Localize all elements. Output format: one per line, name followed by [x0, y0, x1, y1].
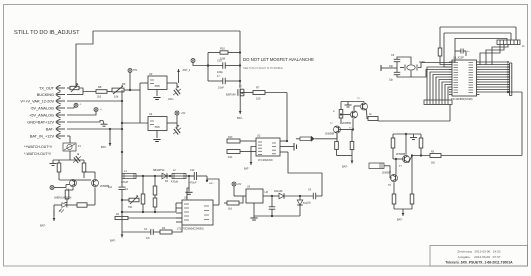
svg-text:R9: R9 — [122, 82, 126, 86]
title block text line 1 — [457, 249, 500, 253]
title block text line 3 — [445, 261, 513, 265]
svg-text:+5V_ANALOG: +5V_ANALOG — [29, 113, 54, 117]
wire dcdc mid — [121, 211, 176, 213]
svg-text:15p: 15p — [389, 65, 394, 68]
svg-text:2N5087: 2N5087 — [382, 171, 392, 175]
ground rail2 — [410, 134, 417, 140]
wire t7-right — [441, 155, 522, 157]
label LM393 — [54, 196, 71, 200]
net arrow TX mid — [296, 136, 315, 142]
inductor L1 — [121, 170, 136, 184]
resistor R5b — [153, 198, 157, 212]
resistor R30 — [438, 48, 449, 65]
wire conn j1 top1 — [515, 27, 517, 40]
wire diff rail — [53, 157, 84, 160]
wire lm top — [234, 195, 246, 197]
net label -5V_ANALOG — [30, 105, 65, 111]
wire xtal mid — [396, 62, 398, 73]
svg-text:BAT_IN_+12V: BAT_IN_+12V — [30, 134, 55, 138]
svg-text:2N5550: 2N5550 — [342, 121, 352, 125]
svg-text:C12: C12 — [190, 169, 195, 172]
label 2N5088 a — [325, 132, 335, 136]
resistor R20 — [333, 102, 343, 125]
gnd left xtal — [381, 65, 397, 71]
wire bundle left — [427, 67, 449, 100]
svg-text:15p: 15p — [389, 79, 394, 82]
title block text line 2 — [458, 255, 501, 259]
wire U4 right — [167, 122, 177, 124]
wire t4 c — [84, 172, 95, 179]
svg-text:100u: 100u — [168, 98, 174, 101]
svg-text:R10: R10 — [220, 47, 225, 51]
wire GND row — [67, 121, 103, 123]
capacitor C4 — [307, 189, 322, 205]
transistor T4 — [92, 180, 110, 189]
svg-text:+5V: +5V — [237, 183, 242, 186]
wire loops j1 — [480, 45, 508, 66]
svg-text:SEE THIS IS WHAT IS POSSIBLE: SEE THIS IS WHAT IS POSSIBLE — [243, 66, 283, 70]
wire bus x122 — [121, 90, 123, 187]
svg-text:47n: 47n — [146, 237, 151, 240]
wire t6 base — [390, 174, 392, 178]
svg-text:10n: 10n — [307, 202, 312, 205]
resistor R10 — [208, 47, 240, 61]
svg-text:GND=BAT+12V: GND=BAT+12V — [27, 120, 54, 124]
transistor T2 — [330, 123, 341, 133]
diode D5 — [274, 190, 284, 199]
label BAT- mid — [101, 128, 111, 149]
svg-text:+5V: +5V — [181, 112, 186, 115]
junction tx — [129, 89, 131, 91]
wire conn j1 top2 — [510, 33, 512, 40]
wire t4 e — [94, 187, 96, 205]
capacitor C3 — [144, 228, 153, 240]
wire icsp top3 — [455, 39, 507, 52]
wire t6 c — [393, 182, 395, 194]
resistor R2 — [141, 176, 145, 212]
wire t1 c — [354, 106, 360, 110]
pad +5v lm — [232, 182, 242, 196]
resistor R25 — [391, 134, 395, 155]
svg-text:-5V_ANALOG: -5V_ANALOG — [30, 106, 54, 110]
pad +5V — [175, 111, 186, 115]
capacitor C13 — [168, 85, 183, 101]
ground diff rail — [50, 160, 57, 166]
transistor T3 — [66, 180, 77, 192]
net label BAT- — [46, 126, 65, 132]
svg-text:*-WATCH-OUT*!!: *-WATCH-OUT*!! — [24, 152, 51, 156]
svg-text:TR1: TR1 — [128, 206, 133, 209]
wire U4 gnd stem — [156, 131, 158, 139]
svg-text:R14: R14 — [228, 156, 233, 159]
ic U6 LM — [246, 186, 268, 204]
wire note pointer — [76, 31, 240, 88]
svg-text:BAT-: BAT- — [110, 239, 116, 243]
wire U3 right — [167, 82, 177, 84]
wire t5 c — [363, 101, 365, 104]
ground rail drop — [185, 176, 192, 194]
wire tx step — [79, 88, 96, 92]
svg-text:BAT-: BAT- — [342, 165, 348, 169]
wire icsp v1 — [439, 27, 441, 48]
label -WATCH-OUT — [24, 152, 51, 156]
svg-text:2u2: 2u2 — [108, 186, 113, 189]
resistor R28 — [392, 194, 396, 204]
svg-text:U3: U3 — [149, 72, 153, 76]
svg-text:470uF: 470uF — [190, 182, 197, 185]
connector J3 — [424, 100, 452, 105]
connector J1 — [497, 40, 525, 48]
svg-text:100: 100 — [256, 97, 261, 101]
note DO NOT LET MOSFET AVALANCHE — [243, 57, 314, 62]
wire u2 out3 — [280, 151, 288, 153]
inductor L2 — [171, 169, 186, 184]
transistor T5 — [357, 98, 368, 110]
wire r7 right — [265, 92, 287, 94]
wire q1-r7 — [244, 92, 253, 94]
svg-text:1N4148: 1N4148 — [274, 190, 283, 193]
capacitor C15 — [410, 154, 414, 204]
transistor T1 — [342, 111, 358, 125]
svg-text:2k2: 2k2 — [97, 95, 102, 99]
svg-text:3k3: 3k3 — [228, 208, 233, 211]
crystal X1 — [405, 61, 426, 71]
diode D4 — [153, 169, 169, 183]
pic right pin stubs — [477, 62, 480, 95]
capacitor C5 — [269, 195, 276, 216]
resistor R24 — [368, 113, 378, 121]
wire +5V row — [67, 112, 96, 116]
net label BAT_IN_+12V — [30, 133, 65, 139]
svg-text:BAT-: BAT- — [237, 116, 243, 120]
wire icsp top1 — [440, 26, 516, 28]
capacitor C8 — [389, 72, 400, 81]
wire bus x122 lower — [121, 190, 123, 233]
resistor R32 — [82, 160, 86, 178]
wire u2-lm area — [288, 152, 322, 196]
wire dcdc toprail — [122, 175, 194, 177]
wire led left — [54, 204, 62, 206]
wire BUCKING row — [67, 92, 83, 95]
wire led bottom — [40, 205, 55, 228]
resistor R8 — [96, 85, 107, 99]
wire u2 out2 — [280, 146, 294, 148]
ground U4 — [153, 140, 160, 142]
svg-text:V=+V_VAR_12-20V: V=+V_VAR_12-20V — [21, 99, 55, 103]
capacitor C9 — [389, 54, 400, 68]
wire d5-z — [284, 195, 313, 197]
wire u5 right — [207, 179, 219, 205]
svg-text:10k: 10k — [114, 95, 119, 99]
wire x240 top — [239, 31, 241, 88]
wire l1-d4 — [136, 175, 162, 177]
wire U4 left — [122, 122, 148, 124]
capacitor C12 — [190, 169, 197, 185]
ic U1 PIC16F883 — [451, 55, 477, 101]
title block box — [430, 246, 528, 267]
wire arrow-base — [315, 133, 338, 139]
svg-text:2k2: 2k2 — [431, 162, 436, 165]
resistor R13 — [227, 136, 256, 143]
net label GND=BAT+12V — [27, 119, 65, 125]
svg-text:BAT-: BAT- — [209, 182, 214, 185]
wire pad5v stem — [176, 115, 178, 128]
svg-text:R7: R7 — [256, 86, 260, 90]
svg-text:*+WATCH-OUT*!!: *+WATCH-OUT*!! — [24, 145, 52, 149]
wire t5 e — [367, 110, 369, 119]
svg-text:LT1173CN8(MC34063): LT1173CN8(MC34063) — [177, 227, 204, 231]
wire xtal top — [397, 57, 411, 64]
wire icsp v2 — [444, 33, 449, 67]
resistor R22 — [350, 130, 354, 156]
wire rail1 — [341, 101, 364, 103]
svg-text:2N5088: 2N5088 — [396, 152, 406, 156]
svg-text:BAT-: BAT- — [397, 218, 403, 222]
svg-text:7805: 7805 — [154, 85, 160, 88]
wire q1 source — [237, 97, 243, 121]
wire u5 left pins — [176, 203, 182, 222]
svg-text:Ausgabe: 2013-03-06 07:37: Ausgabe: 2013-03-06 07:37 — [458, 255, 501, 259]
svg-text:2N5088: 2N5088 — [325, 132, 335, 136]
label +WATCH-OUT — [24, 145, 52, 149]
wire t3-t4 — [59, 178, 91, 180]
svg-text:STILL TO DO IB_ADJUST: STILL TO DO IB_ADJUST — [14, 30, 80, 36]
pad input — [50, 185, 69, 190]
regulator U3 — [148, 72, 167, 90]
wire t1 base — [340, 113, 350, 115]
resistor R33 — [67, 203, 87, 207]
wire bat bottom — [110, 232, 123, 243]
regulator U4 — [148, 112, 167, 131]
wire U3 left — [140, 82, 148, 84]
wire icsp top2 — [444, 32, 511, 34]
transistor T7 — [396, 152, 410, 168]
wire t6 e — [395, 158, 397, 175]
wire osc2 — [411, 70, 452, 78]
ground U3 — [153, 98, 160, 100]
svg-text:10nF: 10nF — [218, 86, 224, 90]
resistor R14 — [227, 150, 256, 160]
gnd arrow cluster2 — [397, 209, 404, 222]
net arrow ANT_1 — [177, 69, 191, 83]
transistor T6 — [382, 171, 398, 188]
ground u2 — [294, 143, 297, 151]
capacitor C16 — [452, 49, 470, 63]
wire snub left — [207, 53, 209, 82]
pad -5V — [74, 103, 82, 107]
capacitor C14 — [170, 124, 183, 137]
svg-text:TP1: TP1 — [133, 69, 138, 72]
wire pic out long — [480, 91, 523, 156]
wire t7 base — [393, 155, 404, 159]
wire c3 left — [122, 231, 151, 233]
wire TX_OUT row — [67, 87, 70, 89]
wire t2 c — [336, 134, 338, 142]
wire l2-c12 — [186, 175, 194, 177]
resistor R35 — [224, 196, 243, 211]
ic U5 LT1173 — [177, 196, 213, 231]
wire c12 right — [197, 176, 214, 185]
mosfet Q1 BSP149 — [226, 86, 244, 97]
svg-text:C10: C10 — [217, 59, 222, 63]
svg-text:7805: 7805 — [154, 126, 160, 129]
svg-text:BAT-: BAT- — [46, 127, 55, 131]
resistor R21 — [335, 142, 339, 150]
ground rail1 — [345, 102, 352, 108]
svg-text:TX_OUT: TX_OUT — [39, 86, 55, 90]
wire t1 e — [349, 119, 353, 130]
wire t2 base — [339, 126, 354, 131]
capacitor C2 — [108, 186, 129, 191]
pad TP2 — [191, 59, 209, 67]
wire rail2 — [393, 133, 421, 135]
svg-text:470uH: 470uH — [121, 181, 128, 184]
capacitor C17 — [70, 153, 83, 166]
resistor R7b — [153, 227, 172, 234]
wire osc1 — [400, 63, 452, 68]
wire BAT- row — [67, 128, 122, 130]
ground lm — [250, 216, 257, 220]
resistor R4 — [153, 176, 157, 198]
wire r8-r9 — [107, 91, 112, 93]
ic U2 — [256, 134, 280, 162]
wire u2 out1 — [280, 140, 287, 142]
wire u5 top pin — [187, 188, 189, 200]
svg-text:BAT-: BAT- — [40, 224, 46, 228]
svg-text:100p: 100p — [217, 70, 223, 74]
trimmer R12 — [70, 83, 79, 92]
svg-text:Zeichnung 2013-03-06 14:52: Zeichnung 2013-03-06 14:52 — [457, 249, 500, 253]
gnd arrow cluster1 — [342, 156, 353, 169]
capacitor C11 — [208, 75, 240, 90]
net label +5V_ANALOG — [29, 112, 65, 118]
resistor R6 — [115, 211, 128, 220]
wire conn-down — [449, 105, 451, 122]
wire cluster2 bottom — [394, 204, 412, 209]
net label TX_OUT — [39, 85, 65, 91]
svg-text:DO NOT LET MOSFET AVALANCHE: DO NOT LET MOSFET AVALANCHE — [243, 57, 314, 62]
trimmer R9 — [112, 82, 126, 99]
svg-text:LTC1062CN8: LTC1062CN8 — [258, 159, 273, 162]
svg-text:470uH: 470uH — [171, 181, 178, 184]
wire r6-ic — [128, 217, 182, 219]
svg-text:LM: LM — [265, 191, 268, 194]
bus bar right — [510, 63, 512, 96]
wire lm bottom — [254, 203, 300, 217]
wire BAT_IN row — [67, 136, 70, 143]
wire -5V row — [67, 107, 74, 108]
note STILL TO DO — [14, 30, 80, 36]
svg-text:U4: U4 — [149, 112, 153, 116]
pic left pin stubs — [449, 62, 452, 95]
wire r9-bus — [124, 89, 140, 91]
resistor R26 — [419, 134, 423, 157]
svg-text:ANT_1: ANT_1 — [183, 69, 191, 72]
resistor R34 — [65, 187, 73, 199]
wire lm out — [263, 195, 279, 197]
wire rail1 bottom — [337, 150, 353, 156]
svg-text:U2: U2 — [257, 134, 261, 138]
wire t7 e — [409, 156, 431, 163]
resistor R27 — [430, 151, 441, 165]
svg-text:BAT-: BAT- — [244, 168, 249, 171]
svg-text:PIC16F883(SO28): PIC16F883(SO28) — [451, 97, 473, 101]
wire bundle right — [480, 61, 510, 91]
svg-text:SB340T90: SB340T90 — [153, 169, 165, 172]
svg-text:R8: R8 — [98, 85, 102, 89]
wire xtal bot — [397, 71, 411, 77]
wire U3 gnd stem — [156, 90, 158, 97]
wire u3 out stem — [176, 83, 178, 88]
trimmer R3 — [121, 195, 139, 209]
wire u2 pin2 — [244, 147, 256, 171]
svg-text:R13: R13 — [228, 136, 233, 139]
wire bus x140 — [139, 83, 141, 123]
led D2 — [59, 199, 67, 213]
ground GND row — [101, 121, 108, 127]
capacitor C10 — [207, 59, 240, 75]
testpoint pad TP1 — [128, 69, 138, 91]
svg-text:BSP149: BSP149 — [226, 93, 236, 97]
wire bus x287 — [286, 93, 288, 143]
pad +5V row — [94, 108, 103, 112]
wire mic — [384, 166, 390, 174]
microphone MIC1 — [369, 163, 384, 169]
wire long y121 — [378, 119, 450, 122]
net label V=+V_VAR_12-20V — [21, 98, 66, 104]
svg-text:BAT-: BAT- — [101, 145, 107, 149]
wire f1 bottom — [69, 151, 71, 157]
svg-text:BUCKING: BUCKING — [37, 93, 54, 97]
note small — [243, 66, 283, 70]
wire r7b-u5 — [172, 225, 182, 232]
fuse F1 — [63, 143, 81, 151]
wire V= row — [67, 100, 122, 102]
wire t7 c — [405, 134, 407, 155]
resistor R31 — [57, 160, 61, 178]
wire r33 — [87, 204, 95, 206]
net label BUCKING — [37, 92, 65, 98]
wire d4-l2 — [167, 175, 172, 177]
zener D6 — [297, 196, 308, 216]
svg-text:Telexers_6X0_PSU&TX_1-66-2011.: Telexers_6X0_PSU&TX_1-66-2011.T3001A — [445, 261, 513, 265]
resistor R7 — [253, 86, 265, 101]
